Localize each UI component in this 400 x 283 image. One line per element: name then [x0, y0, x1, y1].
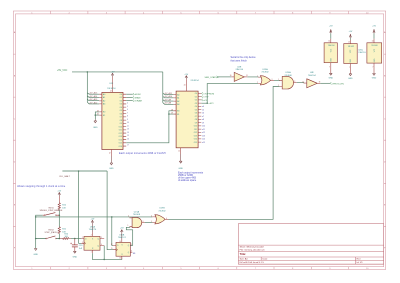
wire CLK net — [62, 170, 107, 172]
svg-text:A2: A2 — [177, 100, 179, 103]
svg-text:n9: n9 — [202, 122, 204, 124]
svg-text:74LS154: 74LS154 — [107, 88, 116, 90]
wire U19A out to U20A pin1 — [274, 79, 279, 81]
svg-text:O16: O16 — [119, 146, 122, 148]
title block — [238, 224, 383, 265]
blue note: serial device — [231, 56, 257, 63]
wire R20 to U11A D — [71, 238, 81, 240]
left ticks — [13, 54, 15, 226]
wire U13 O0 — [126, 93, 132, 95]
U14 lower output labels — [202, 106, 205, 144]
wire U13 enables to ground — [95, 112, 99, 119]
IC U20 power unit body — [373, 39, 375, 43]
U14 output pin names — [194, 93, 197, 144]
svg-text:SW12: SW12 — [48, 229, 54, 231]
svg-text:nROM: nROM — [134, 94, 140, 96]
label nRAM — [133, 96, 134, 98]
svg-text:+5V_A8: +5V_A8 — [164, 102, 172, 105]
node U13 enable junction — [95, 114, 97, 116]
pin U14 VCC 24 — [185, 79, 187, 91]
top ticks — [51, 11, 349, 14]
flip-flop U11B 74HC74 — [111, 235, 132, 260]
svg-text:74LS08: 74LS08 — [371, 45, 377, 47]
U14 left input pins — [173, 95, 176, 105]
svg-text:A0: A0 — [177, 93, 179, 96]
svg-text:+5V_A14: +5V_A14 — [89, 95, 98, 98]
svg-text:E0: E0 — [103, 112, 105, 114]
label nCF — [202, 99, 203, 101]
svg-text:O11: O11 — [194, 129, 197, 131]
wire clk to U11B CLK — [107, 171, 113, 250]
power +5V above U4 — [329, 25, 333, 33]
svg-text:14: 14 — [348, 41, 350, 43]
svg-text:O10: O10 — [194, 126, 197, 128]
svg-text:A1: A1 — [103, 96, 105, 99]
wire reset rail — [92, 253, 121, 259]
svg-text:n5: n5 — [202, 109, 204, 111]
svg-text:E0: E0 — [177, 111, 179, 113]
svg-text:E1: E1 — [103, 115, 105, 117]
svg-text:+5V: +5V — [91, 218, 95, 220]
svg-text:A3: A3 — [177, 103, 179, 106]
svg-text:14: 14 — [328, 41, 330, 43]
node W_a to U11B D junction — [111, 216, 113, 218]
label nTTY — [202, 96, 203, 98]
wire clk to U11A CLK — [79, 171, 82, 243]
resistor R20 100 — [59, 238, 71, 240]
wire enable net W_a — [36, 216, 153, 218]
svg-text:+5V: +5V — [120, 228, 124, 230]
svg-text:n7: n7 — [202, 116, 204, 118]
svg-text:S: S — [122, 244, 123, 246]
svg-text:13: 13 — [119, 258, 121, 260]
or-gate U19B 74LS32 — [151, 208, 168, 224]
label nPROG_EN — [330, 82, 331, 84]
svg-text:n15: n15 — [202, 142, 205, 144]
svg-text:74LS32: 74LS32 — [158, 210, 166, 212]
svg-text:O10: O10 — [119, 126, 122, 128]
U13 right output pins — [123, 94, 126, 146]
wire U19B out to U20A pin2 — [169, 87, 280, 220]
svg-text:10: 10 — [127, 122, 129, 124]
wire U13 O2 — [126, 100, 132, 102]
node O3 junction — [206, 102, 208, 104]
label nTOPROM — [202, 92, 203, 94]
svg-text:12: 12 — [178, 150, 180, 152]
wire +5V to R22 — [58, 196, 60, 203]
svg-text:74HC74: 74HC74 — [118, 237, 126, 239]
svg-text:n10: n10 — [202, 126, 205, 128]
svg-text:74HC04: 74HC04 — [308, 75, 316, 77]
ground under C23 — [73, 251, 78, 258]
svg-text:KiCad E.D.A. kicad 5.1.5: KiCad E.D.A. kicad 5.1.5 — [240, 261, 265, 264]
node SW11 junction — [59, 214, 61, 216]
svg-text:GND: GND — [33, 254, 38, 256]
wire U14 O3 to OR gate — [201, 84, 258, 104]
svg-text:O5: O5 — [195, 109, 197, 111]
svg-text:14: 14 — [372, 41, 374, 43]
svg-text:+5V_A9: +5V_A9 — [164, 99, 172, 102]
power +5V above U13 — [111, 72, 115, 77]
svg-text:GND: GND — [348, 78, 353, 80]
wire R22 node down to R21 — [58, 215, 60, 227]
svg-text:of address space: of address space — [178, 179, 197, 182]
switch SW11 SINGLE_STEP_ENABLE — [40, 208, 63, 216]
wire SW11 left to gnd rail — [36, 215, 43, 248]
svg-text:n12: n12 — [202, 132, 205, 134]
U14 right output pins — [198, 93, 201, 142]
capacitor C23 1uF — [70, 239, 83, 252]
pin U13 VCC 24 — [112, 77, 114, 92]
buffer U4E 74HC04 — [230, 67, 248, 82]
node W_a left junction — [35, 216, 37, 218]
svg-text:74HC04: 74HC04 — [235, 69, 243, 71]
svg-text:O3: O3 — [195, 103, 197, 105]
svg-text:O2: O2 — [195, 100, 197, 102]
right ticks — [384, 54, 386, 226]
label nROM — [133, 93, 134, 95]
svg-text:12: 12 — [109, 152, 111, 154]
buffer U4F 74HC04 — [302, 72, 320, 88]
wire rail drop to U14 inputs — [163, 72, 174, 104]
node SW12 left junction — [35, 238, 37, 240]
IC U14 74LS154 body — [176, 91, 198, 148]
U13 output pin numbers — [127, 103, 129, 147]
svg-text:GND: GND — [109, 168, 114, 170]
svg-text:nSPI: nSPI — [209, 103, 214, 105]
svg-text:O1: O1 — [195, 96, 197, 98]
svg-text:O6: O6 — [120, 113, 122, 115]
svg-text:12: 12 — [111, 244, 113, 246]
and-gate U21A 74LS08 — [127, 211, 144, 228]
svg-text:Rev:: Rev: — [357, 259, 362, 261]
svg-text:O9: O9 — [120, 123, 122, 125]
svg-text:O7: O7 — [195, 116, 197, 118]
svg-text:nPROG_EN: nPROG_EN — [332, 83, 344, 85]
svg-text:15: 15 — [127, 135, 129, 137]
bottom ticks — [51, 267, 349, 270]
wire U4E out to U19A pin1 — [247, 76, 258, 78]
node C23 junction — [74, 238, 76, 240]
svg-text:6: 6 — [143, 221, 144, 223]
svg-text:O0: O0 — [195, 93, 197, 95]
svg-text:U20A: U20A — [285, 71, 291, 74]
ground under U4 — [329, 73, 334, 79]
svg-text:E1: E1 — [177, 114, 179, 116]
svg-text:O14: O14 — [194, 139, 197, 141]
svg-text:nRAM: nRAM — [134, 96, 140, 99]
svg-text:+5V: +5V — [349, 31, 353, 33]
wire rail drop to U13 inputs — [87, 72, 99, 104]
svg-text:n14: n14 — [202, 139, 205, 141]
svg-text:10: 10 — [230, 75, 232, 77]
svg-text:Allows stepping through 1 cloc: Allows stepping through 1 clock at a tim… — [17, 185, 66, 188]
svg-text:+5V_VCC: +5V_VCC — [57, 70, 68, 72]
resistor R21 10K — [58, 227, 60, 234]
pin U13 GND 12 — [110, 150, 112, 157]
power +5V above U11B — [120, 228, 124, 240]
svg-text:+5V_A15: +5V_A15 — [89, 92, 98, 95]
svg-text:SINGLE_STEP_ENABLE: SINGLE_STEP_ENABLE — [40, 209, 63, 212]
svg-text:74HC04: 74HC04 — [328, 45, 335, 47]
blue note: IC2 outputs — [178, 171, 204, 182]
IC U19 power unit body — [349, 40, 351, 44]
svg-text:Each output increments 4096 or: Each output increments 4096 or FLASH — [119, 152, 166, 155]
pin U14 GND 12 — [180, 148, 182, 154]
svg-text:24: 24 — [184, 85, 186, 87]
svg-text:O12: O12 — [194, 132, 197, 134]
svg-text:74LS32: 74LS32 — [348, 46, 354, 48]
svg-text:+5V_A13: +5V_A13 — [89, 98, 98, 101]
svg-text:nVRAM: nVRAM — [134, 100, 142, 103]
svg-text:O9: O9 — [195, 122, 197, 124]
svg-text:74LS154: 74LS154 — [190, 80, 199, 82]
wire +5V to U19 power — [349, 38, 351, 40]
svg-text:GND: GND — [73, 257, 78, 259]
wire U14 enables from U13 O15 — [126, 111, 173, 143]
wire SER_STATUS to U4E — [218, 76, 231, 78]
svg-text:O1: O1 — [120, 97, 122, 99]
svg-text:GND: GND — [93, 127, 98, 129]
IC U13 74LS154 body — [102, 92, 123, 149]
svg-text:Date:: Date: — [263, 258, 269, 261]
flip-flop U11A 74HC74 — [81, 225, 104, 253]
svg-text:7: 7 — [329, 67, 330, 69]
ground under U20 — [372, 73, 377, 79]
svg-text:7: 7 — [372, 67, 373, 69]
svg-text:A3: A3 — [103, 103, 105, 106]
svg-text:O12: O12 — [119, 133, 122, 135]
svg-text:n8: n8 — [202, 119, 204, 121]
svg-text:O15: O15 — [194, 142, 197, 144]
svg-text:nTOPROM: nTOPROM — [203, 93, 214, 95]
U13 left input pins A0-A3 — [99, 94, 102, 104]
svg-text:GND: GND — [372, 78, 377, 80]
ground under U13 enables — [93, 119, 98, 129]
svg-text:14: 14 — [127, 132, 129, 134]
svg-text:S: S — [92, 238, 93, 240]
svg-text:n4: n4 — [202, 106, 204, 108]
svg-text:O15: O15 — [119, 143, 122, 145]
svg-text:11: 11 — [111, 248, 113, 250]
switch SW12 STEP_(PACE) — [36, 229, 60, 239]
wire R21 to SW12 node — [58, 234, 60, 239]
svg-text:+5V_A12: +5V_A12 — [89, 101, 98, 104]
svg-text:U19A: U19A — [262, 68, 268, 71]
power +5V above U14 — [184, 74, 188, 79]
wire W_a to U11B D — [112, 217, 113, 246]
svg-text:O13: O13 — [119, 136, 122, 138]
svg-text:74LS08: 74LS08 — [133, 214, 141, 216]
svg-text:SW11: SW11 — [48, 208, 54, 210]
svg-text:O6: O6 — [195, 113, 197, 115]
svg-text:+5V: +5V — [372, 25, 376, 27]
svg-text:16: 16 — [127, 138, 129, 140]
svg-text:A2: A2 — [103, 100, 105, 103]
svg-text:74HC74: 74HC74 — [89, 229, 97, 231]
node reset junction — [103, 259, 105, 261]
svg-text:CLK_/HALT: CLK_/HALT — [59, 175, 71, 178]
svg-text:O8: O8 — [195, 119, 197, 121]
svg-text:+5V: +5V — [57, 190, 61, 192]
svg-text:GND: GND — [178, 168, 183, 170]
svg-text:File: memory_decoder.sch: File: memory_decoder.sch — [240, 249, 266, 251]
svg-text:that uses /fetch: that uses /fetch — [231, 60, 248, 63]
svg-text:Title:: Title: — [240, 252, 246, 256]
node SW12 junction — [59, 238, 61, 240]
wire U11B Q to U21A pin2 zigzag — [126, 227, 132, 245]
svg-text:O8: O8 — [120, 120, 122, 122]
U14 enable pins — [173, 111, 176, 114]
power +5V above U19 — [349, 31, 353, 38]
svg-text:U11A: U11A — [90, 225, 96, 228]
svg-text:O4: O4 — [195, 106, 197, 108]
wire +5V rail — [72, 71, 163, 73]
svg-text:Id: 1/1: Id: 1/1 — [357, 262, 364, 264]
svg-text:+5V_A11: +5V_A11 — [164, 92, 173, 95]
wire U4F out — [320, 82, 330, 84]
and-gate U20A 74LS08 — [278, 71, 297, 89]
svg-text:A1: A1 — [177, 97, 179, 100]
svg-text:+5V_A10: +5V_A10 — [164, 95, 173, 98]
svg-text:Sheet: /Memory Decoder/: Sheet: /Memory Decoder/ — [240, 246, 265, 249]
power +5V above U11A — [91, 218, 95, 232]
resistor R22 10K — [58, 203, 60, 210]
svg-text:O4: O4 — [120, 107, 122, 109]
svg-text:74LS32: 74LS32 — [261, 72, 269, 74]
ground under U14 — [178, 154, 183, 170]
svg-text:STEP_(PACE): STEP_(PACE) — [45, 231, 58, 234]
label nVRAM — [133, 100, 134, 102]
svg-text:74HC1G: 74HC1G — [358, 52, 366, 54]
node rail-IC1 junction — [87, 71, 89, 73]
ground under U19 — [348, 74, 353, 80]
svg-text:n6: n6 — [202, 113, 204, 115]
svg-text:n11: n11 — [202, 129, 205, 131]
ground under U13 — [109, 156, 114, 170]
svg-text:O13: O13 — [194, 135, 197, 137]
svg-text:U11B: U11B — [119, 235, 125, 237]
svg-text:17: 17 — [127, 145, 129, 147]
svg-text:n13: n13 — [202, 135, 205, 137]
svg-text:O5: O5 — [120, 110, 122, 112]
ground under switches — [33, 249, 38, 256]
svg-text:O11: O11 — [119, 130, 122, 132]
wire U21A out to U19B pin2 — [145, 222, 153, 224]
svg-text:11: 11 — [127, 125, 129, 127]
wire U20A out to U4F — [297, 82, 304, 85]
wire +5V to U20 power — [373, 33, 375, 38]
or-gate U19A 74LS32 — [257, 68, 274, 85]
svg-text:O2: O2 — [120, 101, 122, 103]
svg-text:O0: O0 — [120, 94, 122, 96]
svg-text:O7: O7 — [120, 117, 122, 119]
power +5V above R22 — [57, 190, 61, 196]
svg-text:Size: A4: Size: A4 — [240, 258, 249, 261]
svg-text:13: 13 — [127, 129, 129, 131]
power +5V above U20 — [372, 25, 376, 33]
svg-text:nTTY: nTTY — [203, 97, 209, 99]
svg-text:+5V: +5V — [329, 25, 333, 27]
svg-text:O3: O3 — [120, 104, 122, 106]
wire R22 to SW11 node — [58, 210, 60, 216]
U13 output pin names — [119, 94, 122, 148]
U13 enable pins E0 E1 — [99, 112, 102, 115]
wire +5V to U4 power — [330, 33, 332, 38]
node clk junction — [78, 170, 80, 172]
svg-text:A0: A0 — [103, 93, 105, 96]
wire U11A Qbar to reset rail — [103, 246, 105, 260]
svg-text:O14: O14 — [119, 139, 122, 141]
svg-text:GND: GND — [329, 78, 334, 80]
svg-text:U21A: U21A — [134, 211, 140, 214]
wire U13 O1 — [126, 96, 132, 98]
svg-text:12: 12 — [302, 81, 304, 83]
node U14 enable junction — [168, 113, 170, 115]
IC U4 power unit body — [330, 39, 332, 43]
